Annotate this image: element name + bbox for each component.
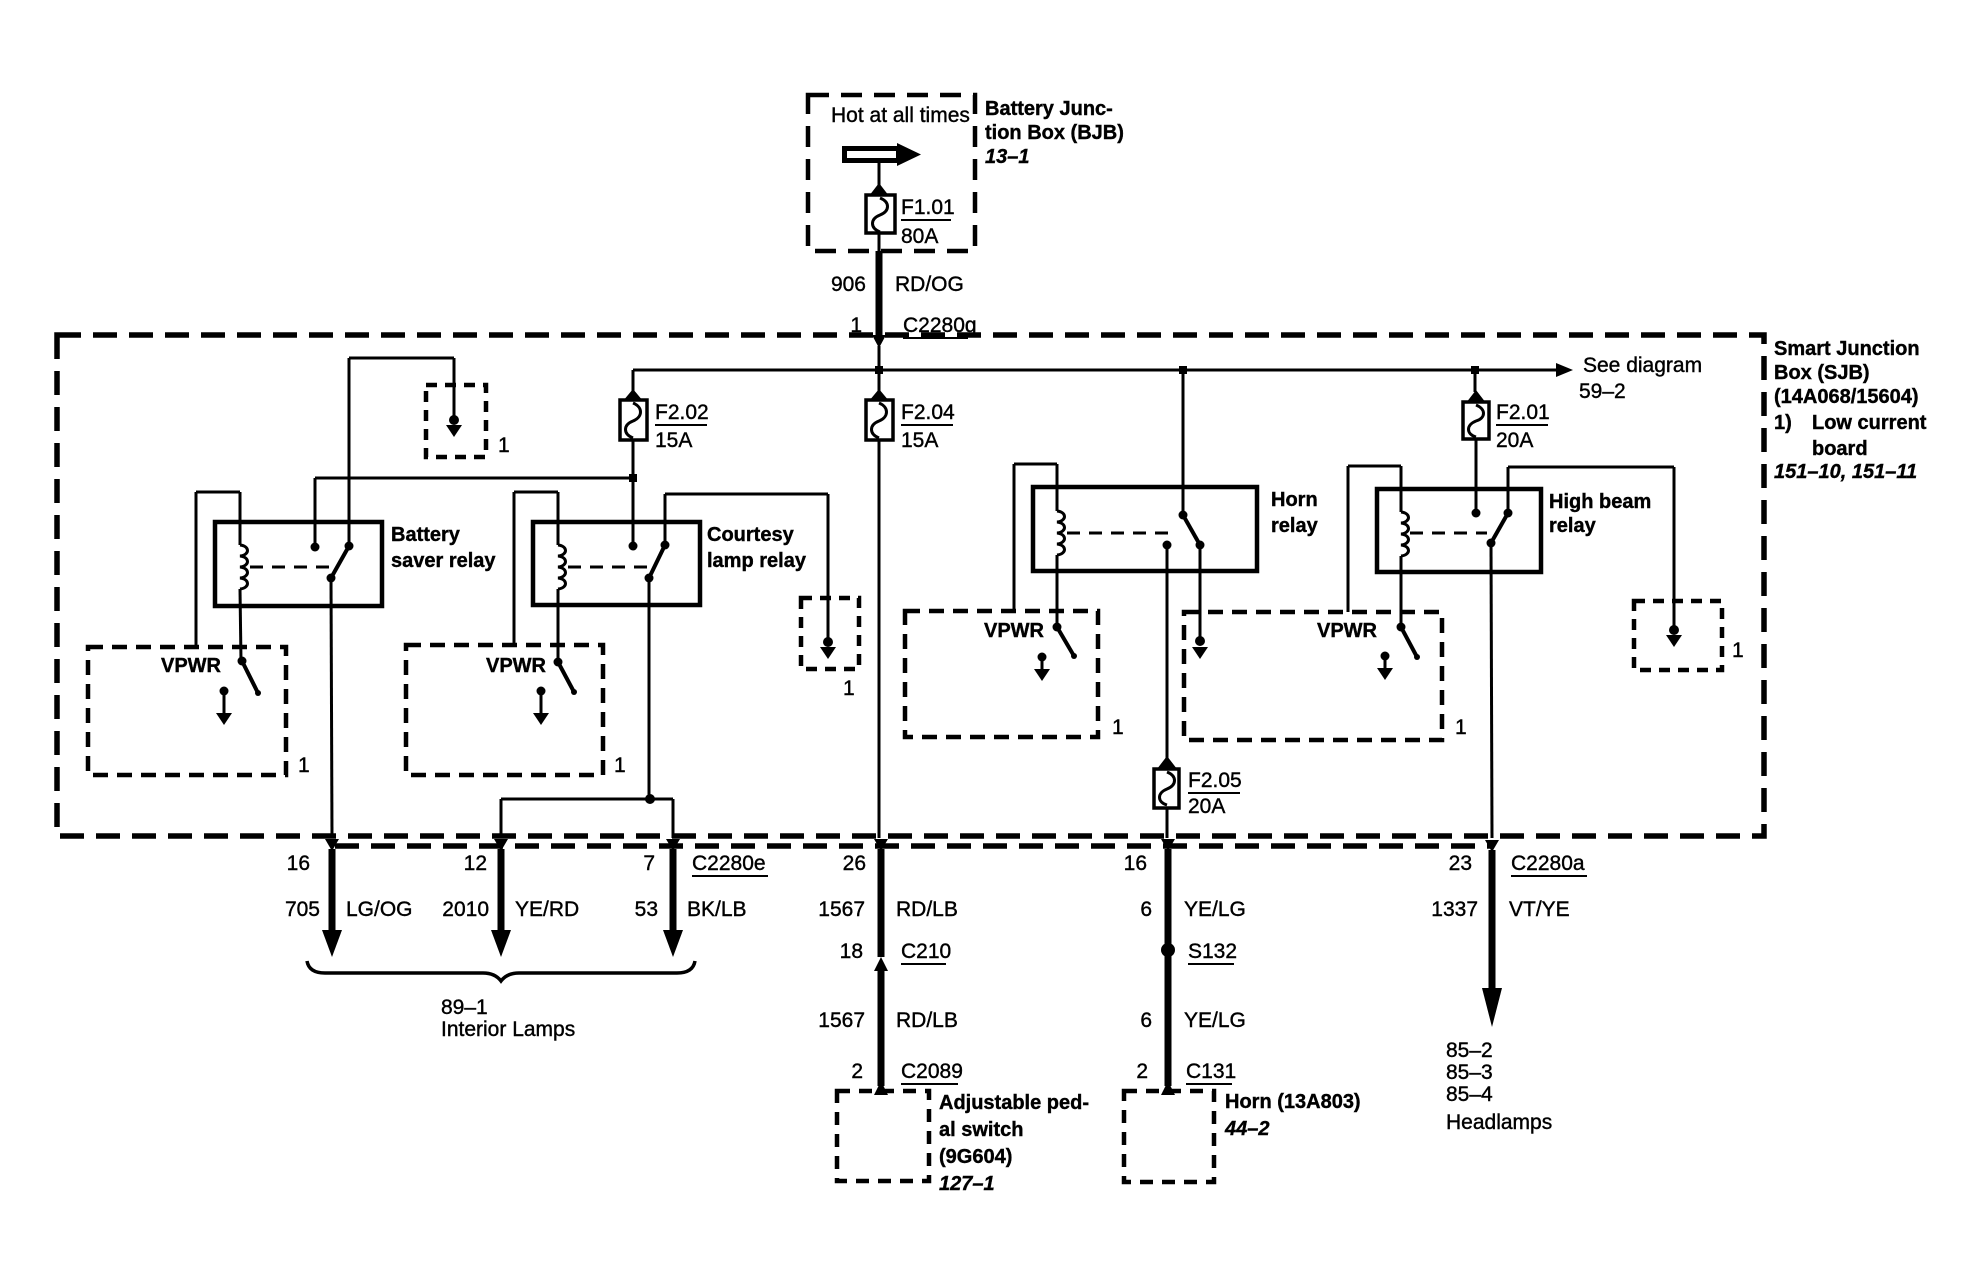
bus wire inside SJB bbox=[633, 363, 1573, 377]
svg-text:S132: S132 bbox=[1188, 940, 1237, 963]
wire 6 YE/LG pin 16 horn bbox=[1124, 839, 1246, 1086]
svg-text:YE/RD: YE/RD bbox=[515, 898, 579, 921]
svg-text:12: 12 bbox=[464, 852, 487, 875]
splice S132 bbox=[1161, 940, 1237, 964]
svg-text:80A: 80A bbox=[901, 225, 938, 248]
svg-text:7: 7 bbox=[643, 852, 655, 875]
svg-text:53: 53 bbox=[635, 898, 658, 921]
svg-text:C2089: C2089 bbox=[901, 1060, 963, 1083]
svg-text:C2280e: C2280e bbox=[692, 852, 766, 875]
horn box bbox=[1124, 1091, 1361, 1182]
connector C131 pin 2 bbox=[1136, 1060, 1236, 1095]
svg-text:85–2: 85–2 bbox=[1446, 1039, 1493, 1062]
ground box 1 right bbox=[1634, 601, 1744, 670]
connector C210 pin 18 bbox=[840, 940, 952, 971]
svg-text:Adjustable ped-: Adjustable ped- bbox=[939, 1092, 1089, 1114]
svg-text:High beam: High beam bbox=[1549, 491, 1651, 513]
svg-text:(9G604): (9G604) bbox=[939, 1146, 1012, 1168]
svg-text:F1.01: F1.01 bbox=[901, 196, 955, 219]
wire battery saver output pin 16 bbox=[331, 578, 332, 838]
svg-text:VPWR: VPWR bbox=[1317, 620, 1378, 642]
svg-text:59–2: 59–2 bbox=[1579, 380, 1626, 403]
wire 1567 RD/LB to C2089 bbox=[818, 968, 958, 1086]
label headlamps bbox=[1446, 1039, 1552, 1134]
brace interior lamps bbox=[307, 961, 695, 981]
node bus junction at C2280g bbox=[875, 366, 883, 374]
svg-text:Hot at all times: Hot at all times bbox=[831, 104, 970, 127]
svg-text:al switch: al switch bbox=[939, 1119, 1023, 1141]
label Smart Junction Box (SJB) bbox=[1774, 338, 1927, 483]
wire horn NC contact to ground arrow bbox=[1192, 545, 1208, 659]
VPWR box battery saver bbox=[88, 647, 310, 777]
svg-text:Battery Junc-: Battery Junc- bbox=[985, 98, 1113, 120]
high beam relay bbox=[1348, 466, 1651, 627]
svg-text:LG/OG: LG/OG bbox=[346, 898, 413, 921]
svg-text:F2.04: F2.04 bbox=[901, 401, 955, 424]
svg-text:1567: 1567 bbox=[818, 898, 865, 921]
svg-text:RD/LB: RD/LB bbox=[896, 1009, 958, 1032]
svg-text:2010: 2010 bbox=[442, 898, 489, 921]
label C2280e bbox=[692, 852, 768, 876]
wire 705 LG/OG pin 16 bbox=[285, 839, 413, 957]
svg-text:YE/LG: YE/LG bbox=[1184, 1009, 1246, 1032]
svg-text:RD/LB: RD/LB bbox=[896, 898, 958, 921]
connector C2280g pin 1 bbox=[850, 314, 976, 372]
svg-text:1): 1) bbox=[1774, 412, 1792, 434]
wire 2010 YE/RD pin 12 bbox=[442, 839, 579, 957]
wire F2.01 to high beam relay bbox=[1475, 439, 1478, 513]
svg-text:44–2: 44–2 bbox=[1224, 1118, 1270, 1140]
wire F2.04 down to connector bbox=[878, 440, 881, 838]
wire courtesy pivot to middle ground box bbox=[665, 494, 828, 599]
svg-text:VPWR: VPWR bbox=[161, 655, 222, 677]
svg-text:1337: 1337 bbox=[1431, 898, 1478, 921]
ground box 1 top left bbox=[426, 385, 510, 457]
svg-text:tion Box (BJB): tion Box (BJB) bbox=[985, 122, 1124, 144]
battery junction box BJB dashed box bbox=[808, 95, 975, 251]
svg-text:18: 18 bbox=[840, 940, 863, 963]
svg-text:127–1: 127–1 bbox=[939, 1173, 995, 1195]
wire courtesy output to pins 12 and 7 bbox=[501, 578, 673, 838]
svg-text:VPWR: VPWR bbox=[486, 655, 547, 677]
svg-text:1567: 1567 bbox=[818, 1009, 865, 1032]
svg-text:20A: 20A bbox=[1496, 429, 1533, 452]
power feed arrow bbox=[842, 143, 921, 166]
horn relay bbox=[1014, 464, 1319, 627]
svg-text:(14A068/15604): (14A068/15604) bbox=[1774, 386, 1919, 408]
svg-text:Box (SJB): Box (SJB) bbox=[1774, 362, 1870, 384]
wire 1337 VT/YE pin 23 headlamps bbox=[1431, 840, 1569, 1027]
svg-text:Horn (13A803): Horn (13A803) bbox=[1225, 1091, 1361, 1113]
courtesy lamp relay bbox=[514, 492, 807, 662]
label 89-1 Interior Lamps bbox=[441, 996, 575, 1041]
svg-text:20A: 20A bbox=[1188, 795, 1225, 818]
fuse F2.01 20A bbox=[1463, 370, 1550, 452]
svg-text:saver relay: saver relay bbox=[391, 550, 496, 572]
battery saver relay bbox=[196, 492, 496, 661]
smart junction box SJB dashed border bbox=[57, 335, 1764, 836]
svg-text:board: board bbox=[1812, 438, 1868, 460]
svg-text:Interior Lamps: Interior Lamps bbox=[441, 1018, 575, 1041]
connector C2280e dashed line bbox=[335, 843, 1493, 849]
svg-text:1: 1 bbox=[843, 677, 855, 700]
svg-text:Courtesy: Courtesy bbox=[707, 524, 795, 546]
wire battery saver pivot to ground box bbox=[349, 358, 454, 546]
adjustable pedal switch box bbox=[837, 1091, 1089, 1195]
svg-text:Headlamps: Headlamps bbox=[1446, 1111, 1552, 1134]
svg-text:2: 2 bbox=[1136, 1060, 1148, 1083]
svg-text:23: 23 bbox=[1449, 852, 1472, 875]
svg-text:F2.01: F2.01 bbox=[1496, 401, 1550, 424]
svg-text:C2280a: C2280a bbox=[1511, 852, 1585, 875]
VPWR box horn bbox=[905, 611, 1124, 739]
wire F2.05 to connector bbox=[1166, 808, 1169, 838]
svg-text:705: 705 bbox=[285, 898, 320, 921]
svg-text:13–1: 13–1 bbox=[985, 146, 1030, 168]
svg-text:relay: relay bbox=[1271, 515, 1319, 537]
connector C2089 pin 2 bbox=[851, 1060, 963, 1095]
node bus junction horn bbox=[1179, 366, 1187, 374]
fuse F2.04 15A bbox=[866, 370, 955, 452]
svg-text:Battery: Battery bbox=[391, 524, 461, 546]
VPWR box high beam bbox=[1184, 612, 1467, 740]
wire 906 RD/OG bbox=[831, 233, 964, 336]
svg-text:F2.05: F2.05 bbox=[1188, 769, 1242, 792]
svg-text:F2.02: F2.02 bbox=[655, 401, 709, 424]
svg-text:6: 6 bbox=[1140, 898, 1152, 921]
svg-text:6: 6 bbox=[1140, 1009, 1152, 1032]
label Battery Junction Box (BJB) 13-1 bbox=[985, 98, 1124, 168]
fuse F2.05 20A bbox=[1154, 756, 1242, 818]
svg-text:1: 1 bbox=[298, 754, 310, 777]
wire F2.02 to relays bbox=[315, 440, 637, 547]
svg-text:RD/OG: RD/OG bbox=[895, 273, 964, 296]
svg-text:VPWR: VPWR bbox=[984, 620, 1045, 642]
svg-text:Horn: Horn bbox=[1271, 489, 1318, 511]
label C2280a bbox=[1511, 852, 1587, 876]
wire bus to horn relay bbox=[1182, 370, 1185, 515]
svg-text:1: 1 bbox=[1455, 716, 1467, 739]
svg-text:16: 16 bbox=[287, 852, 310, 875]
svg-text:1: 1 bbox=[614, 754, 626, 777]
svg-text:lamp relay: lamp relay bbox=[707, 550, 807, 572]
svg-text:See diagram: See diagram bbox=[1583, 354, 1702, 377]
svg-text:VT/YE: VT/YE bbox=[1509, 898, 1570, 921]
svg-text:906: 906 bbox=[831, 273, 866, 296]
svg-text:15A: 15A bbox=[901, 429, 938, 452]
wire high beam pivot to right ground box bbox=[1508, 467, 1674, 602]
wire feed to fuse bbox=[878, 163, 881, 187]
svg-text:1: 1 bbox=[1112, 716, 1124, 739]
label 6 YE/LG lower bbox=[1140, 1009, 1246, 1032]
svg-text:Low current: Low current bbox=[1812, 412, 1927, 434]
svg-text:relay: relay bbox=[1549, 515, 1597, 537]
svg-text:26: 26 bbox=[843, 852, 866, 875]
VPWR box courtesy bbox=[406, 645, 626, 777]
svg-text:Smart Junction: Smart Junction bbox=[1774, 338, 1920, 360]
svg-text:C131: C131 bbox=[1186, 1060, 1236, 1083]
svg-text:89–1: 89–1 bbox=[441, 996, 488, 1019]
svg-text:YE/LG: YE/LG bbox=[1184, 898, 1246, 921]
wire 1567 RD/LB pin 26 bbox=[818, 839, 958, 957]
wire high beam output bbox=[1491, 543, 1492, 838]
wire 53 BK/LB pin 7 bbox=[635, 839, 747, 957]
svg-text:1: 1 bbox=[1732, 639, 1744, 662]
svg-text:C210: C210 bbox=[901, 940, 951, 963]
ground box 1 middle bbox=[801, 598, 859, 700]
fuse F1.01 80A bbox=[866, 183, 955, 248]
fuse F2.02 15A bbox=[620, 370, 709, 452]
svg-text:15A: 15A bbox=[655, 429, 692, 452]
svg-text:16: 16 bbox=[1124, 852, 1147, 875]
svg-text:151–10, 151–11: 151–10, 151–11 bbox=[1774, 461, 1917, 483]
svg-text:2: 2 bbox=[851, 1060, 863, 1083]
svg-text:85–4: 85–4 bbox=[1446, 1083, 1493, 1106]
svg-text:85–3: 85–3 bbox=[1446, 1061, 1493, 1084]
svg-text:1: 1 bbox=[498, 434, 510, 457]
node bus junction F2.01 bbox=[1471, 366, 1479, 374]
wire horn output to F2.05 bbox=[1166, 545, 1169, 758]
label See diagram 59-2 bbox=[1579, 354, 1702, 403]
svg-text:BK/LB: BK/LB bbox=[687, 898, 747, 921]
